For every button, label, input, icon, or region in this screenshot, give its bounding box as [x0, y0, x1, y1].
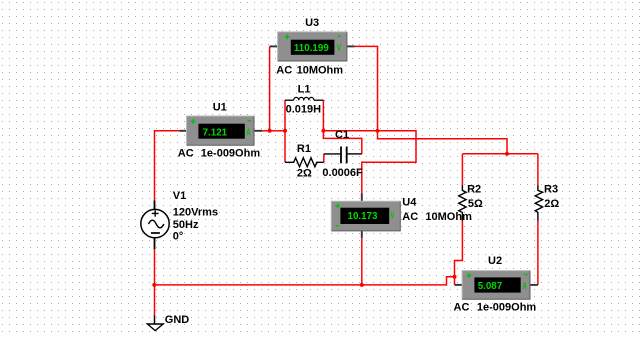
svg-text:GND: GND: [165, 314, 190, 326]
wire node B down to R1 left: [284, 131, 286, 163]
wire R2-R3 top horizontal: [462, 153, 538, 155]
wire ground rail horizontal: [155, 277, 455, 285]
inductor L1: [285, 97, 323, 100]
svg-text:V: V: [390, 209, 394, 221]
wire node D up to U3 right pin: [355, 46, 378, 131]
wire R1 right up to C1 left lead: [323, 154, 325, 162]
svg-text:U3: U3: [305, 17, 319, 29]
svg-text:R2: R2: [467, 183, 481, 195]
junction U2 left pin: [453, 275, 457, 279]
svg-text:C1: C1: [335, 129, 349, 141]
svg-text:AC: AC: [402, 211, 418, 223]
svg-text:7.121: 7.121: [203, 128, 228, 139]
voltmeter U4: [331, 194, 400, 238]
svg-text:0°: 0°: [173, 231, 184, 243]
svg-text:1e-009Ohm: 1e-009Ohm: [477, 302, 537, 314]
wire node D down to R2 R3 split: [378, 131, 508, 154]
voltmeter U3: [270, 32, 355, 61]
junction node D: [376, 129, 380, 133]
ammeter U2: [455, 271, 538, 300]
svg-text:U4: U4: [402, 197, 417, 209]
svg-text:U1: U1: [213, 102, 227, 114]
wire node A up to U3 left pin: [269, 46, 271, 131]
wire V1 bottom to ground: [154, 249, 156, 315]
wire R2 bottom to U2 left pin junction: [455, 221, 463, 285]
capacitor C1: [324, 147, 362, 164]
svg-text:5.087: 5.087: [478, 281, 503, 292]
junction V1 bottom rail: [152, 283, 156, 287]
svg-text:2Ω: 2Ω: [544, 198, 559, 210]
wire R3 bottom to U2 right pin: [537, 221, 539, 285]
svg-text:0.019H: 0.019H: [286, 103, 322, 115]
svg-text:5Ω: 5Ω: [468, 198, 483, 210]
junction R2-R3 split: [505, 152, 509, 156]
svg-text:A: A: [523, 279, 527, 291]
svg-text:U2: U2: [488, 255, 502, 267]
ground: [147, 316, 163, 331]
AC source V1: [141, 201, 169, 250]
svg-text:AC: AC: [178, 148, 194, 160]
junction node B: [283, 129, 287, 133]
svg-text:50Hz: 50Hz: [173, 219, 199, 231]
junction node C: [321, 129, 325, 133]
svg-text:0.0006F: 0.0006F: [322, 167, 363, 179]
svg-text:110.199: 110.199: [294, 43, 329, 54]
wire node C to node D main: [323, 130, 377, 132]
svg-text:V: V: [337, 41, 341, 53]
wire node D to U4 top: [362, 131, 416, 194]
wire U1 right pin to node A: [262, 130, 269, 132]
svg-text:1e-009Ohm: 1e-009Ohm: [201, 148, 261, 160]
wire node C down-right to C1 right lead: [323, 131, 361, 154]
wire node B up to L1 left: [284, 100, 286, 132]
wire L1 right down to node C: [322, 100, 324, 131]
resistor R1: [285, 158, 324, 167]
svg-text:A: A: [246, 126, 250, 138]
resistor R2: [459, 185, 466, 221]
svg-text:V1: V1: [173, 190, 186, 202]
junction U4 bottom rail: [360, 283, 364, 287]
svg-text:AC: AC: [454, 302, 470, 314]
wire U4 bottom to rail: [361, 238, 363, 285]
wire R3 top lead: [537, 154, 539, 185]
svg-text:10MOhm: 10MOhm: [297, 65, 344, 77]
svg-text:10.173: 10.173: [348, 211, 379, 222]
svg-text:2Ω: 2Ω: [297, 167, 312, 179]
junction node A: [268, 129, 272, 133]
svg-text:10MOhm: 10MOhm: [425, 211, 472, 223]
svg-text:L1: L1: [298, 83, 311, 95]
svg-text:R1: R1: [297, 143, 311, 155]
wire node A to node B: [270, 130, 285, 132]
resistor R3: [535, 185, 542, 221]
wire R2 top lead: [461, 154, 463, 185]
ammeter U1: [179, 116, 262, 145]
svg-text:AC: AC: [276, 65, 292, 77]
svg-text:120Vrms: 120Vrms: [173, 206, 218, 218]
wire V1 top to U1 left: [155, 131, 180, 201]
svg-text:R3: R3: [544, 183, 558, 195]
